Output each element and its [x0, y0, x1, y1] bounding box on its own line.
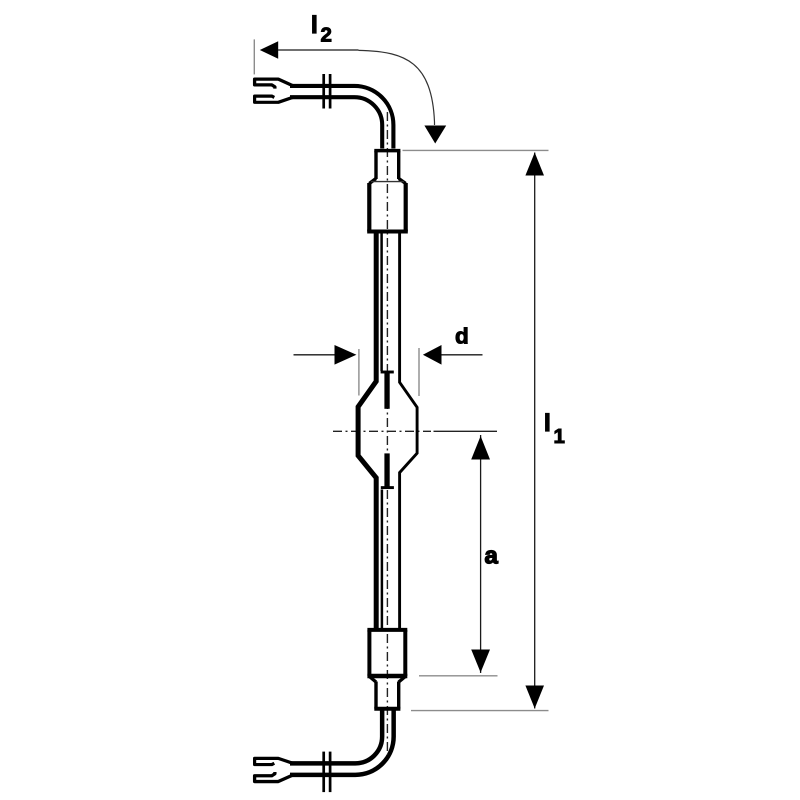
bottom cap wide rect right side [403, 630, 407, 676]
top cap left flare [369, 179, 376, 184]
dimension a top arrowhead [471, 436, 490, 460]
upper electrode shaft [384, 372, 389, 409]
dimension a bottom extension line [419, 675, 498, 677]
bottom cap lower rect right side [397, 682, 400, 709]
bottom cap left flare [369, 677, 376, 683]
dimension l2 left arrowhead [260, 41, 278, 58]
dimension l1 line [534, 153, 536, 709]
dimension l2 extension line left [253, 39, 255, 74]
lower electrode crossbar [381, 486, 394, 489]
bottom cap right flare [399, 677, 406, 683]
dimension d left extension line [358, 349, 360, 396]
top cable break mark line 2 [329, 74, 332, 109]
top cap wide rect right side [404, 183, 408, 232]
quartz tube right wall with bulb flare [400, 233, 418, 630]
top cap wide rect left side [367, 183, 371, 232]
top fork terminal upper prong [255, 79, 294, 89]
tube inner wall line upper [380, 233, 383, 371]
quartz tube left wall with bulb flare [358, 233, 376, 630]
dimension l2 line [278, 49, 359, 51]
bottom fork terminal upper prong [255, 758, 294, 764]
top cap upper rect right side [397, 151, 400, 179]
lower electrode shaft [384, 453, 389, 487]
top cap upper rect top edge [374, 149, 400, 153]
wire bottom flexible cable (inner white core gap) [290, 711, 388, 770]
upper electrode crossbar [381, 371, 394, 374]
dimension d left arrowhead [335, 345, 357, 365]
top cap wide rect bottom edge [367, 230, 408, 234]
svg-text:d: d [455, 324, 469, 349]
horizontal dash-dot centerline [333, 430, 431, 432]
top cap wide rect thin top line [371, 181, 404, 183]
vertical dash-dot centerline [386, 112, 388, 755]
dimension l1 bottom extension line [411, 710, 549, 712]
bottom fork terminal lower prong [255, 772, 294, 782]
dimension l1 top extension line [403, 149, 549, 151]
bottom cap wide rect bottom edge [367, 674, 407, 678]
top cap upper rect left side [374, 151, 377, 179]
dimension d left tail line [294, 354, 336, 356]
dimension l2 down arrowhead [424, 126, 446, 144]
svg-text:2: 2 [321, 24, 332, 47]
bottom cap lower rect left side [374, 682, 377, 709]
bottom cap lower rect bottom edge [374, 707, 400, 711]
tube inner wall line lower [381, 490, 384, 631]
wire bottom flexible cable (outer black) [290, 711, 388, 770]
bottom cap wide rect top edge [367, 628, 407, 632]
top fork terminal lower prong [255, 96, 294, 102]
dimension l1 top arrowhead [525, 153, 544, 176]
horizontal centerline solid extension to dimension a [434, 430, 498, 432]
svg-text:l: l [544, 410, 551, 437]
dimension l1 bottom arrowhead [525, 686, 544, 709]
dimension d right arrowhead [423, 345, 442, 365]
dimension d right tail line [442, 354, 483, 356]
svg-text:l: l [311, 12, 318, 39]
wire top flexible cable (outer black) [290, 92, 388, 149]
svg-text:1: 1 [554, 425, 565, 448]
svg-text:a: a [485, 543, 499, 570]
bottom cable break mark line 1 [322, 752, 325, 793]
bottom cable break mark line 2 [329, 752, 332, 793]
dimension d right extension line [418, 348, 420, 396]
dimension l2 curved leader [359, 50, 435, 125]
top cap right flare [399, 179, 406, 184]
dimension a line [480, 435, 482, 673]
wire top flexible cable (inner white core gap) [290, 92, 388, 149]
top cable break mark line 1 [322, 74, 325, 109]
dimension a bottom arrowhead [471, 650, 490, 673]
bottom cap wide rect left side [367, 630, 371, 676]
